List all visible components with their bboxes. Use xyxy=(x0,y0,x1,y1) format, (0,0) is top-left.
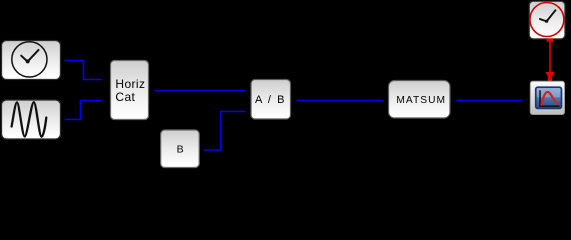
wire clock to HorizCat xyxy=(65,61,102,80)
red event link arrow xyxy=(549,42,551,73)
scope block CSCOPE xyxy=(530,81,564,114)
svg-text:Cat: Cat xyxy=(115,90,135,104)
port stub A/B out xyxy=(291,100,298,102)
svg-text:MATSUM: MATSUM xyxy=(396,95,446,106)
black bar top-left xyxy=(0,0,8,44)
clock block (source) xyxy=(2,41,61,80)
svg-text:A / B: A / B xyxy=(255,94,286,106)
A/B block xyxy=(251,80,291,120)
wire sine to HorizCat xyxy=(65,101,102,120)
red clock block SampleCLK xyxy=(529,1,565,39)
clock hands xyxy=(21,50,38,62)
MATSUM block xyxy=(389,81,451,119)
HorizCat block xyxy=(111,61,149,120)
transparent background (stored black) xyxy=(0,0,571,171)
port stub A/B in2 xyxy=(245,111,251,113)
clock face circle xyxy=(12,42,47,77)
scope axes xyxy=(540,90,560,106)
scope screen xyxy=(536,87,562,108)
red clock event port stub xyxy=(547,39,553,42)
scope red curve xyxy=(541,92,559,105)
black bar bottom-left xyxy=(0,127,8,171)
red clock circle xyxy=(530,3,564,37)
scope screen gloss xyxy=(537,88,561,97)
port stub HorizCat in1 xyxy=(102,79,110,81)
sine block GENSIN xyxy=(2,100,61,139)
wire MATSUM to scope xyxy=(457,100,523,102)
port stub clock out xyxy=(61,60,65,62)
port stub HorizCat in2 xyxy=(102,100,110,102)
wire B to A/B xyxy=(204,112,245,151)
red clock hands xyxy=(540,10,556,21)
port stub MATSUM in xyxy=(384,100,389,102)
port stub B out xyxy=(200,149,205,151)
port stub MATSUM out xyxy=(450,100,457,102)
svg-text:Horiz: Horiz xyxy=(115,77,145,91)
B block xyxy=(161,130,200,168)
svg-text:B: B xyxy=(177,143,184,155)
port stub sine out xyxy=(61,119,65,121)
port stub HorizCat out xyxy=(149,90,156,92)
scope event input stub xyxy=(548,78,552,81)
port stub A/B in1 xyxy=(245,90,251,92)
sine curve xyxy=(12,102,47,137)
wire A/B to MATSUM xyxy=(297,100,384,102)
wire HorizCat to A/B xyxy=(155,90,245,92)
port stub scope in xyxy=(523,100,531,102)
